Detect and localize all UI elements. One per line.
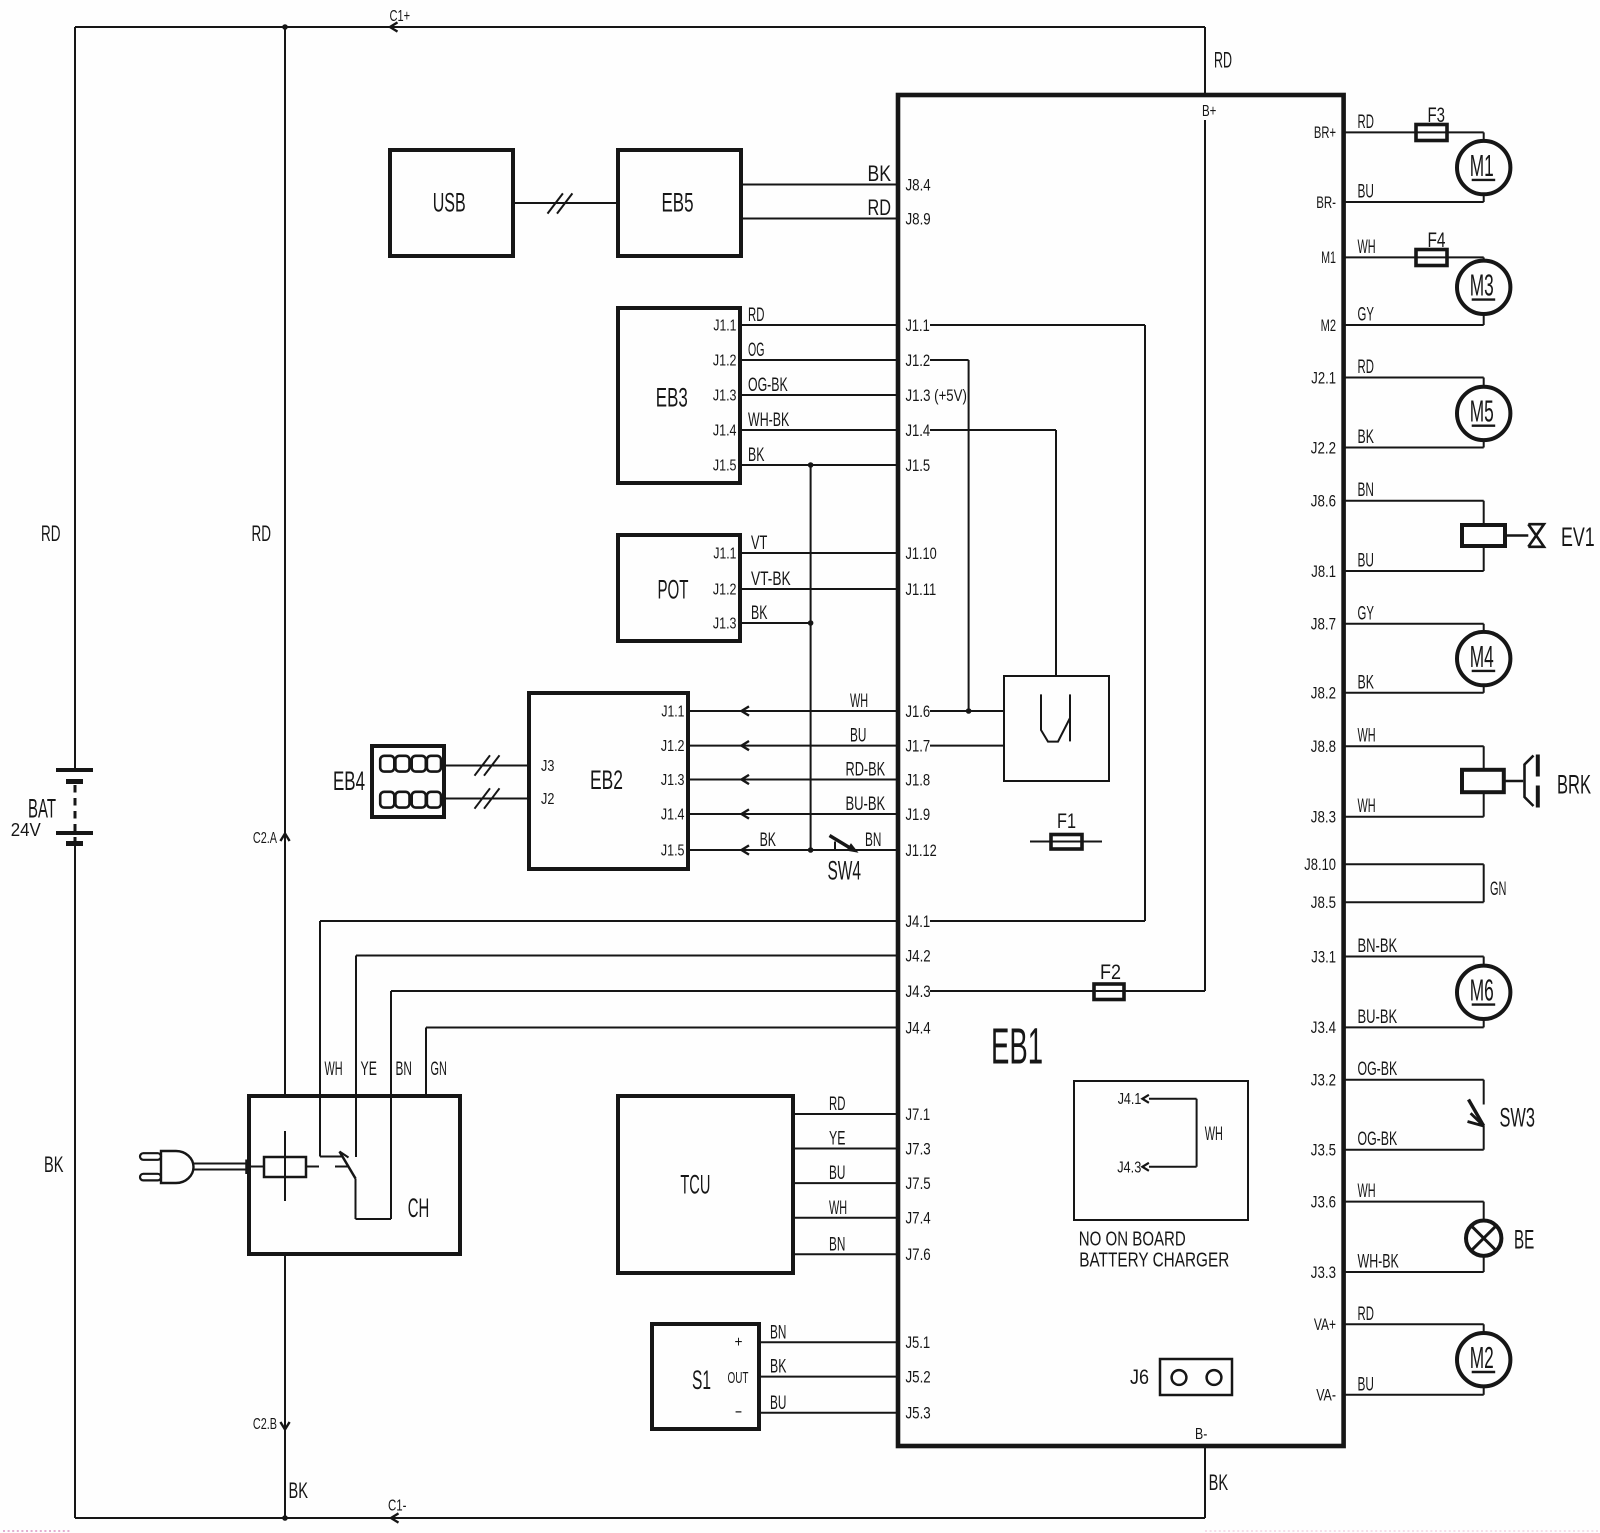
svg-text:M2: M2 [1470, 1340, 1494, 1375]
svg-text:EB4: EB4 [333, 766, 365, 796]
svg-text:BK: BK [1358, 427, 1375, 448]
svg-text:OG-BK: OG-BK [1358, 1059, 1398, 1080]
svg-text:J1.12: J1.12 [906, 842, 937, 860]
svg-text:RD: RD [41, 521, 61, 546]
svg-text:J4.1: J4.1 [906, 913, 931, 931]
svg-text:BK: BK [1209, 1470, 1229, 1495]
svg-text:J7.4: J7.4 [906, 1210, 931, 1228]
svg-text:VT-BK: VT-BK [751, 569, 791, 590]
svg-text:J8.4: J8.4 [906, 176, 931, 194]
svg-text:J1.1: J1.1 [713, 318, 736, 335]
svg-text:WH: WH [1358, 1181, 1376, 1202]
svg-text:J8.2: J8.2 [1311, 685, 1336, 703]
svg-text:VA-: VA- [1316, 1387, 1336, 1405]
svg-text:BU-BK: BU-BK [846, 794, 886, 815]
svg-text:J1.2: J1.2 [906, 352, 931, 370]
svg-text:BN: BN [829, 1234, 845, 1255]
svg-text:GN: GN [1490, 879, 1506, 900]
svg-text:BR-: BR- [1316, 194, 1336, 212]
svg-text:J4.1: J4.1 [1118, 1091, 1142, 1108]
svg-text:J5.2: J5.2 [906, 1368, 931, 1386]
svg-text:J1.2: J1.2 [713, 582, 737, 599]
svg-text:BK: BK [760, 830, 777, 851]
svg-text:BN: BN [865, 830, 881, 851]
svg-text:SW3: SW3 [1500, 1103, 1536, 1133]
svg-text:BK: BK [289, 1478, 309, 1503]
svg-text:WH: WH [850, 691, 868, 712]
svg-text:J8.9: J8.9 [906, 210, 931, 228]
svg-text:J1.3: J1.3 [661, 772, 685, 789]
svg-text:F3: F3 [1428, 104, 1446, 127]
svg-text:J1.11: J1.11 [906, 581, 937, 599]
svg-text:J1.4: J1.4 [713, 423, 737, 440]
svg-text:WH: WH [829, 1198, 847, 1219]
svg-text:J4.3: J4.3 [906, 983, 931, 1001]
svg-text:J1.9: J1.9 [906, 806, 931, 824]
svg-text:F1: F1 [1057, 810, 1076, 833]
svg-text:RD: RD [1358, 112, 1374, 133]
svg-text:WH-BK: WH-BK [748, 410, 790, 431]
svg-text:J1.3: J1.3 [713, 388, 737, 405]
svg-text:J1.3: J1.3 [713, 616, 737, 633]
svg-text:RD: RD [868, 195, 892, 220]
svg-text:RD: RD [748, 305, 764, 326]
svg-text:GN: GN [431, 1059, 447, 1080]
svg-text:RD: RD [252, 521, 272, 546]
svg-text:J7.5: J7.5 [906, 1175, 931, 1193]
svg-text:J8.5: J8.5 [1311, 894, 1336, 912]
svg-text:BATTERY CHARGER: BATTERY CHARGER [1079, 1249, 1229, 1271]
svg-text:J3.1: J3.1 [1311, 948, 1336, 966]
svg-text:M4: M4 [1470, 639, 1494, 674]
svg-text:J1.1: J1.1 [906, 317, 930, 335]
svg-text:M3: M3 [1470, 268, 1494, 303]
svg-text:J2.1: J2.1 [1311, 369, 1336, 387]
svg-text:J1.1: J1.1 [713, 546, 736, 563]
svg-text:J1.2: J1.2 [661, 738, 685, 755]
svg-text:J3.6: J3.6 [1311, 1193, 1336, 1211]
svg-text:J1.5: J1.5 [906, 457, 931, 475]
svg-text:F2: F2 [1100, 961, 1121, 984]
svg-text:OG-BK: OG-BK [1358, 1129, 1398, 1150]
svg-text:RD: RD [1358, 357, 1374, 378]
svg-text:M1: M1 [1470, 148, 1494, 183]
svg-text:WH: WH [325, 1059, 343, 1080]
svg-text:J3.2: J3.2 [1311, 1072, 1336, 1090]
svg-text:BE: BE [1514, 1225, 1534, 1255]
svg-text:J7.1: J7.1 [906, 1106, 931, 1124]
svg-text:J1.5: J1.5 [713, 458, 737, 475]
svg-text:BN: BN [770, 1322, 786, 1343]
svg-text:+: + [735, 1334, 743, 1351]
svg-text:RD: RD [829, 1094, 845, 1115]
svg-text:BK: BK [751, 603, 768, 624]
svg-text:BR+: BR+ [1314, 124, 1336, 142]
svg-text:J2.2: J2.2 [1311, 439, 1336, 457]
svg-text:J1.6: J1.6 [906, 703, 931, 721]
svg-text:BK: BK [868, 161, 892, 186]
svg-text:J3: J3 [541, 758, 554, 775]
svg-text:EV1: EV1 [1561, 522, 1595, 552]
svg-text:WH-BK: WH-BK [1358, 1252, 1400, 1273]
svg-text:J1.5: J1.5 [661, 843, 685, 860]
svg-text:GY: GY [1358, 603, 1375, 624]
svg-text:POT: POT [658, 574, 689, 604]
svg-text:J1.7: J1.7 [906, 737, 931, 755]
svg-text:GY: GY [1358, 305, 1375, 326]
svg-text:BN: BN [396, 1059, 412, 1080]
svg-text:M5: M5 [1470, 394, 1494, 429]
svg-text:BN: BN [1358, 480, 1374, 501]
svg-text:J7.3: J7.3 [906, 1140, 931, 1158]
svg-text:EB1: EB1 [991, 1018, 1043, 1075]
svg-text:C2.B: C2.B [253, 1416, 277, 1433]
svg-text:EB5: EB5 [662, 187, 694, 217]
svg-text:J1.4: J1.4 [661, 807, 685, 824]
svg-text:CH: CH [408, 1193, 430, 1223]
svg-text:YE: YE [829, 1129, 845, 1150]
svg-text:RD: RD [1214, 48, 1232, 73]
svg-text:TCU: TCU [680, 1169, 710, 1199]
svg-text:S1: S1 [692, 1365, 711, 1395]
svg-text:YE: YE [361, 1059, 377, 1080]
svg-text:B-: B- [1195, 1426, 1207, 1443]
svg-text:WH: WH [1358, 796, 1376, 817]
svg-text:J5.1: J5.1 [906, 1334, 931, 1352]
svg-text:SW4: SW4 [828, 856, 862, 886]
svg-text:J1.1: J1.1 [661, 704, 684, 721]
svg-text:OG-BK: OG-BK [748, 375, 788, 396]
svg-text:OG: OG [748, 340, 764, 361]
svg-text:J8.3: J8.3 [1311, 809, 1336, 827]
svg-text:J6: J6 [1130, 1366, 1149, 1389]
svg-text:M1: M1 [1321, 249, 1336, 267]
svg-text:J1.10: J1.10 [906, 545, 937, 563]
svg-text:C2.A: C2.A [253, 830, 278, 847]
svg-text:WH: WH [1358, 726, 1376, 747]
svg-text:J7.6: J7.6 [906, 1246, 931, 1264]
svg-text:BK: BK [1358, 672, 1375, 693]
svg-text:BN-BK: BN-BK [1358, 936, 1398, 957]
svg-text:J4.2: J4.2 [906, 947, 931, 965]
svg-text:M6: M6 [1470, 973, 1494, 1008]
svg-text:J8.10: J8.10 [1304, 856, 1336, 874]
svg-text:M2: M2 [1321, 317, 1336, 335]
svg-text:B+: B+ [1202, 103, 1216, 120]
svg-text:J8.7: J8.7 [1311, 616, 1336, 634]
svg-text:J8.8: J8.8 [1311, 738, 1336, 756]
svg-text:BU: BU [1358, 551, 1374, 572]
svg-text:EB2: EB2 [590, 765, 623, 795]
svg-text:WH: WH [1205, 1124, 1223, 1145]
svg-text:J4.3: J4.3 [1117, 1159, 1141, 1176]
svg-text:J3.3: J3.3 [1311, 1264, 1336, 1282]
svg-text:J1.3 (+5V): J1.3 (+5V) [906, 387, 967, 405]
svg-text:BU: BU [770, 1393, 786, 1414]
svg-text:C1-: C1- [388, 1498, 407, 1515]
svg-text:BRK: BRK [1557, 770, 1591, 800]
svg-text:EB3: EB3 [656, 383, 688, 413]
svg-text:RD: RD [1358, 1304, 1374, 1325]
svg-text:J1.2: J1.2 [713, 353, 737, 370]
svg-text:BK: BK [748, 445, 765, 466]
svg-text:USB: USB [433, 187, 466, 217]
svg-text:NO ON BOARD: NO ON BOARD [1079, 1229, 1186, 1251]
svg-text:J1.4: J1.4 [906, 422, 931, 440]
svg-text:VT: VT [751, 533, 768, 554]
svg-text:BK: BK [44, 1152, 64, 1177]
svg-text:J8.1: J8.1 [1311, 563, 1336, 581]
svg-text:F4: F4 [1428, 229, 1446, 252]
svg-text:J5.3: J5.3 [906, 1405, 931, 1423]
svg-text:RD-BK: RD-BK [846, 760, 886, 781]
svg-text:J3.4: J3.4 [1311, 1019, 1336, 1037]
svg-text:VA+: VA+ [1314, 1316, 1336, 1334]
svg-text:J4.4: J4.4 [906, 1019, 931, 1037]
svg-text:BU: BU [1358, 182, 1374, 203]
svg-text:24V: 24V [11, 819, 42, 840]
svg-text:J2: J2 [541, 791, 554, 808]
svg-text:J8.6: J8.6 [1311, 493, 1336, 511]
svg-text:BU-BK: BU-BK [1358, 1007, 1398, 1028]
svg-text:WH: WH [1358, 237, 1376, 258]
svg-text:-: - [735, 1403, 743, 1420]
svg-text:C1+: C1+ [390, 8, 411, 25]
svg-text:BK: BK [770, 1357, 787, 1378]
svg-text:BU: BU [1358, 1374, 1374, 1395]
svg-text:OUT: OUT [728, 1370, 749, 1387]
svg-text:J1.8: J1.8 [906, 771, 931, 789]
svg-text:J3.5: J3.5 [1311, 1142, 1336, 1160]
svg-text:BU: BU [850, 726, 866, 747]
svg-text:BU: BU [829, 1163, 845, 1184]
